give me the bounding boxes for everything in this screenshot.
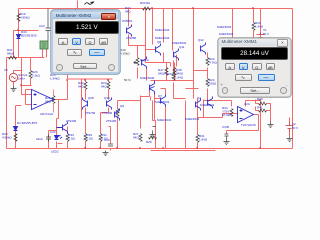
wire bottom double xyxy=(58,144,216,151)
button A2 xyxy=(225,63,235,71)
svg-text:MJE15031: MJE15031 xyxy=(185,117,200,121)
transistor Q12 xyxy=(196,99,201,111)
svg-text:U2A: U2A xyxy=(244,102,250,106)
wire left edge vertical xyxy=(6,58,8,149)
wire source bottom xyxy=(13,82,15,86)
wire rail62 xyxy=(146,63,171,67)
wire col163 xyxy=(163,9,165,63)
svg-text:D1 BZV55-B75: D1 BZV55-B75 xyxy=(17,121,38,125)
resistor R23 xyxy=(206,58,209,66)
resistor R47 xyxy=(165,68,168,76)
close button red xyxy=(101,13,116,21)
wire opamp in2 xyxy=(22,86,32,105)
titlebar XMM2 xyxy=(53,12,119,19)
capacitor C4 xyxy=(46,135,51,142)
transistor Q13 xyxy=(208,97,213,109)
resistor R11 xyxy=(99,134,102,142)
resistor R39 xyxy=(9,56,17,59)
terminal minus2 xyxy=(280,87,287,94)
svg-text:AD711AH: AD711AH xyxy=(40,112,53,116)
svg-text:2N5551: 2N5551 xyxy=(122,19,133,23)
svg-text:Q8: Q8 xyxy=(157,40,161,44)
svg-text:1kHz: 1kHz xyxy=(18,77,25,81)
resistor R35 xyxy=(116,109,119,117)
wire col172 xyxy=(172,9,174,51)
svg-text:Q4: Q4 xyxy=(197,96,201,100)
terminal plus2 xyxy=(222,87,229,94)
svg-text:1.94Ω: 1.94Ω xyxy=(175,76,184,80)
svg-text:4.99kΩ: 4.99kΩ xyxy=(20,16,30,20)
wire under win2 xyxy=(198,100,232,118)
ground G3 xyxy=(224,140,230,145)
wire v2 col xyxy=(289,118,291,137)
resistor R24b xyxy=(206,79,209,87)
transistor Q10 xyxy=(57,122,68,134)
svg-text:0.5Ω: 0.5Ω xyxy=(87,137,94,141)
wire col207 xyxy=(186,53,208,100)
svg-text:Q30: Q30 xyxy=(104,96,110,100)
wire LED column xyxy=(49,119,57,149)
wire top rail xyxy=(19,8,293,10)
svg-text:9Ω: 9Ω xyxy=(146,1,151,5)
wire r33 xyxy=(137,8,153,10)
wire res pair mid xyxy=(141,63,194,121)
button V selected xyxy=(72,38,82,46)
transistor Q5 xyxy=(83,98,88,110)
svg-text:0.5Ω: 0.5Ω xyxy=(69,137,76,141)
resistor R31 xyxy=(196,135,199,143)
svg-text:50 V: 50 V xyxy=(292,126,298,130)
capacitor C24 xyxy=(46,9,51,42)
wire c10 xyxy=(109,127,111,151)
window multimeter XMM2 xyxy=(51,10,121,74)
button dB2 xyxy=(266,63,276,71)
wire col193 xyxy=(193,9,195,99)
wire opamp inputs xyxy=(22,86,32,90)
diode D1 xyxy=(14,127,18,131)
battery V1 xyxy=(257,33,265,42)
capacitor C3 xyxy=(225,134,229,140)
wire col272 xyxy=(256,100,271,122)
button V2 selected xyxy=(239,63,249,71)
svg-text:MJE15031: MJE15031 xyxy=(157,118,172,122)
resistor R36 xyxy=(259,102,267,112)
svg-text:C34: C34 xyxy=(50,130,56,134)
source V3 xyxy=(9,73,17,81)
wire feedback xyxy=(57,100,59,119)
wire top drops xyxy=(61,1,106,12)
svg-text:94kΩ: 94kΩ xyxy=(7,52,15,56)
close button gray xyxy=(277,39,288,47)
svg-text:94Ω: 94Ω xyxy=(78,85,84,89)
button set xyxy=(73,63,97,69)
wire col185 xyxy=(185,101,187,149)
svg-text:50 V: 50 V xyxy=(263,32,269,36)
wire bottom rail xyxy=(7,148,293,150)
junction dots xyxy=(17,29,18,30)
svg-text:Q9: Q9 xyxy=(120,104,124,108)
wire source top xyxy=(14,71,22,74)
svg-text:BZV55-B30: BZV55-B30 xyxy=(21,34,37,38)
ground G1 xyxy=(11,86,17,92)
button dB xyxy=(99,38,109,46)
transistor Q15 xyxy=(150,81,155,95)
svg-text:R37: R37 xyxy=(167,72,173,76)
wire col155 bottom xyxy=(153,89,166,149)
wire right edge xyxy=(292,9,294,149)
svg-text:94Ω: 94Ω xyxy=(125,10,131,14)
svg-text:C10: C10 xyxy=(104,138,110,142)
button set2 xyxy=(240,87,270,94)
LED LED2 xyxy=(55,135,63,140)
svg-text:4.7kΩ: 4.7kΩ xyxy=(209,61,218,65)
svg-text:4.99kΩ: 4.99kΩ xyxy=(2,136,12,140)
button A xyxy=(58,38,68,46)
svg-text:97.9kΩ: 97.9kΩ xyxy=(222,113,232,117)
terminal minus xyxy=(108,64,115,71)
button ohm2 xyxy=(252,63,262,71)
svg-text:MJE15034: MJE15034 xyxy=(217,25,232,29)
wire under win1 xyxy=(68,75,113,119)
resistor R37 xyxy=(172,73,175,81)
svg-text:94Ω: 94Ω xyxy=(101,85,107,89)
svg-text:2T9406: 2T9406 xyxy=(102,111,113,115)
svg-text:94Ω: 94Ω xyxy=(133,136,139,140)
transistor Q14 xyxy=(201,43,206,55)
wire q9 col xyxy=(118,101,141,149)
transistor Q6 xyxy=(107,98,112,110)
op-amp U2A xyxy=(238,107,254,123)
capacitor C10 xyxy=(108,144,113,146)
wire q8 base xyxy=(146,50,156,81)
ground G6 xyxy=(268,122,274,128)
transistor Q16 xyxy=(161,95,166,107)
svg-text:1.94Ω: 1.94Ω xyxy=(199,138,208,142)
svg-text:Key=A: Key=A xyxy=(140,58,149,62)
ground G2 xyxy=(103,151,109,156)
transistor Q17 xyxy=(142,57,147,69)
button sine2 xyxy=(235,74,252,81)
svg-text:22uF: 22uF xyxy=(36,137,43,141)
wire opamp out xyxy=(54,81,68,100)
wire mid verticals left xyxy=(22,58,31,86)
transistor Q9 xyxy=(115,109,120,121)
wire q128 xyxy=(129,9,146,79)
resistor R48 xyxy=(173,68,176,76)
resistor R20 xyxy=(252,23,255,31)
svg-text:50 %: 50 % xyxy=(124,78,131,82)
svg-text:2T9406: 2T9406 xyxy=(106,119,117,123)
svg-text:V3: V3 xyxy=(4,68,8,72)
svg-text:4.19kΩ: 4.19kΩ xyxy=(120,52,130,56)
button sine xyxy=(67,49,82,56)
wire left column xyxy=(18,9,20,31)
svg-text:MJE15030: MJE15030 xyxy=(140,76,155,80)
svg-text:R28: R28 xyxy=(146,140,152,144)
svg-text:2.2kΩ: 2.2kΩ xyxy=(32,74,41,78)
wire opamp2 wires xyxy=(223,114,259,134)
svg-text:MJE15031: MJE15031 xyxy=(200,103,215,107)
resistor R26 xyxy=(29,71,32,79)
svg-text:Q12: Q12 xyxy=(198,38,204,42)
wire left bottom column xyxy=(16,106,22,149)
resistor R22 xyxy=(84,82,87,90)
ground G4 xyxy=(150,127,156,138)
resistor R19 xyxy=(17,14,20,22)
svg-text:Q28: Q28 xyxy=(88,96,94,100)
svg-text:C345: C345 xyxy=(222,125,230,129)
svg-text:Q11: Q11 xyxy=(179,45,185,49)
window multimeter XMM1 xyxy=(218,38,291,97)
svg-text:MJE15031: MJE15031 xyxy=(155,100,170,104)
resistor R10 xyxy=(66,134,69,142)
display XMM1 xyxy=(221,47,288,60)
wire col260 top xyxy=(260,9,262,40)
ground G5 xyxy=(287,137,293,142)
svg-text:TL072ACD: TL072ACD xyxy=(241,123,257,127)
resistor R33 xyxy=(143,7,151,10)
button ohm xyxy=(85,38,95,46)
svg-text:940Ω: 940Ω xyxy=(158,72,166,76)
wire left branch xyxy=(14,31,39,58)
wire opamp2 top loop xyxy=(246,101,261,149)
resistor R29 xyxy=(84,134,87,142)
button dc2 selected xyxy=(258,74,275,81)
svg-text:C24: C24 xyxy=(39,24,45,28)
resistor R23 xyxy=(107,82,110,90)
wire col197 xyxy=(197,99,199,149)
op-amp U1 xyxy=(32,90,54,110)
resistor R27 xyxy=(139,134,142,142)
display XMM2 xyxy=(55,21,119,34)
svg-text:1.94kΩ: 1.94kΩ xyxy=(50,77,60,81)
svg-text:R33: R33 xyxy=(140,1,146,5)
wire q15 xyxy=(151,97,153,121)
wire probe legs xyxy=(43,50,47,58)
wire r20 col xyxy=(233,9,254,40)
svg-text:LED2: LED2 xyxy=(51,150,59,154)
button dc selected xyxy=(89,49,105,56)
resistor R21 xyxy=(52,96,55,104)
wire rail y57 xyxy=(7,57,45,59)
probe P1 xyxy=(40,41,48,49)
diode D30 xyxy=(17,35,21,39)
resistor R34 xyxy=(230,109,233,117)
svg-text:2T9086: 2T9086 xyxy=(126,36,137,40)
terminal plus xyxy=(56,64,63,71)
svg-text:2T9796: 2T9796 xyxy=(85,111,96,115)
transistor Q8 xyxy=(156,44,161,56)
svg-text:MJE15034: MJE15034 xyxy=(155,28,170,32)
titlebar XMM1 xyxy=(219,39,290,46)
resistor R28 xyxy=(149,136,157,139)
wire mid lower rails xyxy=(118,96,141,109)
wire q11 xyxy=(174,55,186,99)
potentiometer R16 xyxy=(134,58,140,66)
svg-text:MJE15034: MJE15034 xyxy=(219,32,234,36)
svg-text:Q7: Q7 xyxy=(158,94,162,98)
transistor Q11 xyxy=(174,49,179,61)
battery V2 xyxy=(286,122,294,135)
wire driver pair xyxy=(86,90,109,149)
annotation squiggle xyxy=(85,2,94,5)
svg-text:160Ω: 160Ω xyxy=(209,82,217,86)
resistor R30 xyxy=(14,134,17,142)
svg-text:R41: R41 xyxy=(257,106,263,110)
svg-text:94Ω: 94Ω xyxy=(45,100,51,104)
transistor Q1 xyxy=(127,25,132,37)
wire col152 xyxy=(146,9,153,63)
wire col 78 xyxy=(68,121,101,149)
svg-text:2T9406: 2T9406 xyxy=(66,119,77,123)
